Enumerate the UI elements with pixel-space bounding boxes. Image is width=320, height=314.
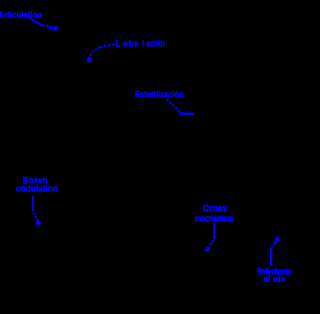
svg-text:mechanism: mechanism — [195, 214, 234, 224]
svg-text:al eie: al eie — [263, 274, 285, 284]
leader for Esterilizacion: solid horizontal end — [180, 112, 195, 115]
svg-text:Articulation: Articulation — [0, 9, 42, 20]
svg-text:adva: adva — [123, 39, 139, 49]
leader for Esterilizacion: dashed diagonal — [167, 99, 180, 112]
svg-text:Cross: Cross — [203, 203, 227, 214]
leader arrowhead block (lower middle) — [205, 247, 210, 252]
leader arrowhead block (left) — [36, 220, 41, 225]
leader for Cross mechanism: dashed diagonal — [209, 240, 213, 247]
leader for upper middle label: dashed curve — [89, 47, 100, 59]
label: Esterilizacion (middle right) — [135, 88, 184, 99]
label: Reference / al eie (bottom right) — [257, 266, 292, 284]
svg-text:l: l — [142, 38, 144, 49]
leader arrowhead block (top left) — [54, 26, 58, 30]
label: Brown / ondulation (left) — [16, 175, 58, 194]
leader arrowhead block (bottom right) — [274, 237, 280, 243]
svg-text:L: L — [115, 38, 120, 49]
svg-text:Esterilización: Esterilización — [135, 88, 184, 99]
leader for Articulation label: solid segment — [30, 19, 45, 27]
leader for Brown ondulation: solid vertical — [32, 196, 34, 212]
label: Articulation (top left) — [0, 9, 42, 20]
label: L adva l acion (upper middle) — [115, 38, 164, 49]
leader for upper middle label: solid segment near label — [101, 44, 115, 47]
leader for Reference: dashed diagonal — [272, 240, 277, 246]
leader for Reference: solid vertical — [270, 248, 272, 266]
svg-text:ación: ación — [146, 39, 164, 49]
leader for Brown ondulation: dashed diagonal — [33, 213, 38, 222]
leader for Articulation label: dashed segment — [47, 25, 54, 31]
svg-text:ondulation: ondulation — [16, 183, 58, 194]
label: Cross / mechanism (lower middle) — [195, 203, 234, 224]
leader arrowhead block (upper middle) — [87, 57, 92, 62]
leader for Cross mechanism: solid vertical — [213, 223, 215, 239]
